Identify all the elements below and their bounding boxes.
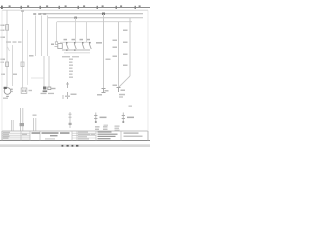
ruler column numbers [9,5,141,7]
cluster lower rail [64,52,90,54]
small aux box [55,42,57,45]
label left of box [1,25,5,27]
terminal wire pair x20.5 bottom [20,108,22,131]
label near x103 top [96,42,102,44]
vertical text column center [69,59,73,78]
wire x70 bottom [69,112,71,128]
contactor pole 1 [66,44,68,50]
motor terminal dash [6,96,9,97]
label row mid-left y74 [1,74,17,76]
left feeder wire x7 [6,10,8,88]
contactor pole 4 [89,44,91,50]
terminal wires x33-35 bottom [33,118,35,131]
status bar glyphs [62,145,79,147]
title mid cell bottom note [45,138,55,139]
title text dense cell [98,131,118,139]
page ruler top line [0,7,150,9]
junction node on L1 [102,13,105,16]
small label x29 y55 [29,55,34,57]
cluster labels above [64,39,91,41]
coil box [58,44,63,49]
ruler divider ticks [1,6,136,9]
terminal label stack right [115,106,133,131]
title block bottom heavy line [0,140,150,142]
small text rows above block x95-116 [95,126,108,130]
cluster label row below [62,56,70,57]
motor terminal marks right [11,89,13,90]
label near x103 mid [106,59,111,61]
wire right x130 [129,18,131,76]
wire pair x49 lower [48,56,50,87]
contactor pole 3 [82,44,84,50]
junction dot cluster [66,49,68,51]
L3 corner drop to coil [56,22,58,42]
labels on x118 wire [113,40,118,87]
label right of terminal tick [71,94,77,96]
breaker symbol left pair [7,46,10,51]
device D2 circle [21,88,27,93]
label small row3 [1,37,6,39]
terminal group B foot [122,121,124,123]
flag symbol center [66,82,69,88]
motor M glyph [4,87,7,89]
component at bottom of x103 [97,89,109,96]
terminal group A dashes [94,116,97,119]
left wire x27 [27,30,29,85]
wire drop x47 [47,16,49,57]
terminal group B dashes [122,116,125,119]
label left of fuses [1,59,6,61]
bus line L2 [48,17,143,19]
small marks above x33 pair [33,115,37,116]
center cluster top rail [60,41,91,43]
fuse on x7 [6,62,9,67]
terminal group A foot [95,121,97,123]
device label row -Q1 [6,41,22,42]
title text cell3 [78,132,95,140]
dark mark bottom x70 [69,123,72,125]
title block right edge [147,131,149,141]
device D2 inner tick [22,90,23,93]
bus line L1 [40,13,143,15]
wire right x118 [118,22,120,92]
wire right x103 [103,14,105,89]
terminal group A label [100,117,107,119]
component at bottom of x44/x49 [41,87,56,95]
title block cell3 row lines [72,133,96,138]
right frame vertical [147,10,149,131]
contactor pole 2 [74,44,76,50]
wire drop x41 [41,16,43,57]
title block left edge [1,131,3,141]
dashes on x70 wire [69,114,72,117]
cluster mid rail [62,49,90,51]
wire drop x86 from L3 [86,22,88,42]
cluster label row below part2 [72,56,79,57]
label right of D2 [29,90,33,91]
junction dot cluster2 [74,49,76,51]
frame inner top line [2,9,148,11]
title text left section rows [3,132,27,139]
terminal wire x13.2 bottom [12,120,14,131]
left frame vertical [1,10,3,131]
labels on x130 wire [123,30,128,67]
diagonal wire x130 to x119 [119,76,130,87]
left wire x22 [22,10,24,88]
junction node on L2 [74,17,77,19]
label right of x63 tick [65,96,70,98]
terminal tick x63 [62,95,64,99]
label small row2 [1,30,5,32]
cluster left stub [55,46,58,48]
connector line y78 [31,77,44,79]
terminal wire pair x22.5 bottom [22,108,24,131]
bus line L3 [57,21,132,23]
terminal group B label [127,117,134,119]
component at bottom of x118 [117,88,126,98]
component box on x7 [6,25,9,31]
motor M1 circle [4,88,11,95]
dark junction at bottom pair [20,123,24,126]
bottom gray status bar [0,144,150,147]
terminal group B wire [122,113,124,124]
terminal wire x13 bottom [11,120,13,131]
title block left row lines [2,133,30,139]
wire drop x75 from L2 [75,18,77,42]
tick on x22 [21,11,24,12]
bus labels L1 L2 L3 [33,13,46,15]
cluster label left [51,44,54,46]
terminal wire x35.8 bottom [35,118,37,131]
title text middle cell [32,132,70,136]
terminal tick center [67,92,69,99]
pole top dots [66,42,91,44]
label under motor [3,98,8,99]
wire drop x35 [35,16,37,57]
terminal group A wire [95,113,97,124]
title block top line [2,130,148,132]
left feeder wire x12 [12,45,14,86]
wire pair x44 lower [43,56,45,87]
title text right cell [124,132,143,136]
faint mark below group A [104,125,109,126]
title block dividers [21,131,121,141]
fuse on x22 [21,62,24,67]
